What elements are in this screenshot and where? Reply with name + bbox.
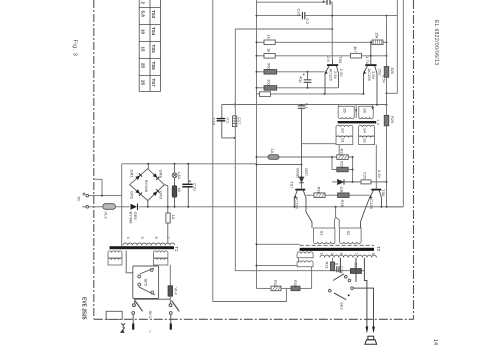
svg-text:0.2: 0.2 [305, 19, 310, 25]
svg-text:C32: C32 [297, 9, 302, 17]
svg-text:0.1: 0.1 [225, 118, 230, 124]
loudspeaker [365, 336, 377, 344]
svg-text:14: 14 [432, 339, 438, 345]
svg-text:GR3: GR3 [159, 191, 164, 200]
wire: T3 secondary left to TS7 base [302, 144, 340, 155]
mains terminal circles on chassis line [132, 312, 172, 315]
output transformer T2 primary winding left [313, 228, 335, 244]
capacitor C16 [217, 105, 235, 138]
transistor TS7 [290, 181, 313, 228]
vertical x=332.2 TS5 collector line [331, 2, 333, 59]
svg-text:C19: C19 [192, 183, 197, 191]
T2 secondary tap numbers [320, 253, 376, 256]
speaker feed wires with arrows [353, 258, 373, 330]
diode GR5 on -rail [129, 204, 139, 225]
wire: y=15.6 rail with C32 [257, 15, 398, 17]
transformer T1 terminal numbers [126, 237, 171, 240]
svg-text:TS7: TS7 [151, 79, 156, 88]
capacitor C31 electrolytic at top [323, 0, 333, 5]
svg-text:0.4V: 0.4V [377, 170, 382, 179]
diode GR7 on TS7 base line [299, 144, 304, 189]
svg-text:TS5: TS5 [338, 56, 343, 64]
T2 bottom small winding pair [297, 252, 313, 288]
table cell texts [141, 2, 157, 88]
battery terminals + 6V [83, 193, 89, 209]
svg-text:R24: R24 [340, 149, 345, 157]
output transformer T2 center tap from rail [334, 207, 339, 228]
resistor R28 [306, 194, 370, 196]
svg-text:TS4: TS4 [151, 27, 156, 36]
resistor R44 4k7 [351, 53, 362, 58]
svg-text:R20: R20 [293, 280, 298, 288]
tap wires with R21 C25 [333, 258, 340, 272]
svg-text:1k: 1k [267, 35, 272, 39]
svg-text:AC128: AC128 [295, 197, 300, 210]
svg-text:40: 40 [177, 188, 182, 193]
svg-text:C16: C16 [212, 118, 217, 126]
resistor R29 on x=386.5 [384, 16, 395, 207]
output transformer T2 core [300, 248, 374, 251]
svg-text:SK1: SK1 [148, 311, 153, 319]
main supply bus x=256.5 [256, 0, 258, 289]
speaker select switch SK2 [329, 258, 357, 300]
resistor R19 [271, 286, 281, 291]
emitter rail y=93.9 with resistor [257, 93, 364, 95]
svg-text:2.3V: 2.3V [339, 69, 344, 78]
svg-text:25: 25 [141, 80, 146, 86]
vertical wire x=235.3 with corners [235, 29, 364, 271]
transistor TS8 [361, 145, 386, 228]
long vertical wire from top at x=213 [213, 0, 287, 302]
transistor TS6 [363, 42, 386, 104]
capacitor C22 [353, 180, 387, 184]
svg-text:R21: R21 [325, 262, 330, 270]
wire: y=265.6 from bus to T2 low winding [257, 265, 297, 267]
transformer T1 primary winding [123, 238, 175, 245]
svg-text:TS6: TS6 [151, 62, 156, 71]
driver transformer T3 primary windings [338, 105, 379, 125]
capacitor C17 box on x=235 line [233, 116, 237, 127]
capacitor C24 electrolytic [304, 72, 312, 88]
svg-text:S6: S6 [363, 108, 368, 114]
svg-text:2.5V: 2.5V [333, 71, 338, 80]
wire: right line x=403.3 [387, 0, 404, 207]
resistor R15 pill [268, 155, 279, 160]
resistor R25 [337, 167, 348, 172]
svg-text:S2: S2 [346, 231, 351, 237]
svg-text:AC128: AC128 [369, 197, 374, 210]
svg-text:1k: 1k [267, 48, 272, 52]
svg-text:S1: S1 [320, 231, 325, 237]
svg-text:BY448: BY448 [144, 180, 149, 193]
svg-text:560: 560 [267, 63, 272, 70]
diode GR2 [153, 173, 160, 180]
resistor row y=55.8 : R32 [257, 55, 387, 57]
transformer T1 secondary winding right pair [154, 251, 168, 265]
svg-text:820: 820 [390, 68, 395, 75]
diode GR6 [338, 179, 353, 184]
svg-text:EVE 2525: EVE 2525 [81, 297, 87, 320]
mains entry terminal box on chassis line [106, 311, 122, 319]
wire rail y=104.7 above driver transformer [222, 104, 387, 106]
svg-text:AC126: AC126 [329, 69, 334, 82]
resistor R24 [337, 155, 348, 160]
svg-text:0.1: 0.1 [305, 103, 310, 109]
junction rail x=352.6 [352, 157, 354, 182]
svg-text:TS7: TS7 [290, 181, 295, 189]
transformer T1 secondary winding left pair [108, 251, 122, 265]
svg-text:S5: S5 [343, 108, 348, 114]
mains switch SK1 [133, 299, 180, 311]
svg-text:GR1: GR1 [130, 170, 135, 179]
driver transformer T3 core [338, 121, 377, 123]
svg-text:6V: 6V [77, 197, 82, 202]
diode GR1 [135, 173, 142, 180]
svg-text:T2: T2 [376, 246, 381, 252]
fuse VL1 [164, 185, 170, 238]
resistor R20 [291, 286, 300, 291]
svg-text:SK2: SK2 [340, 302, 345, 310]
wire: y=244.3 from bus to T2 [257, 243, 300, 245]
voltage selector SK5 box [126, 251, 158, 304]
capacitor C23 [298, 105, 305, 144]
svg-text:5.8: 5.8 [141, 11, 146, 18]
driver transformer T3 secondary windings [336, 125, 375, 144]
wire: resistor R19 R20 row [257, 287, 312, 289]
svg-text:SK5: SK5 [144, 279, 149, 287]
svg-text:C22: C22 [363, 172, 368, 180]
power supply box top wire [122, 164, 257, 246]
wire: right line x=397.3 top [387, 0, 398, 93]
wire: chassis dash-dot bottom border [94, 318, 414, 320]
svg-text:15: 15 [141, 47, 146, 53]
wire: y=29 from corner to x=332 [235, 28, 332, 30]
wire: +6V rail [89, 179, 122, 195]
mains cable earth mark [121, 323, 125, 332]
wire: chassis jog to + rail [94, 179, 102, 195]
svg-text:S4: S4 [363, 128, 368, 134]
svg-text:R28: R28 [317, 187, 322, 195]
bridge rectifier diamond [130, 164, 165, 207]
svg-text:2.6: 2.6 [326, 56, 331, 62]
svg-text:LA1: LA1 [177, 172, 182, 180]
svg-text:1A: 1A [171, 215, 176, 220]
svg-text:OA85: OA85 [296, 168, 301, 179]
resistor R43 [372, 40, 383, 45]
svg-text:3.5V: 3.5V [371, 71, 376, 80]
svg-text:R25: R25 [340, 161, 345, 169]
resistor R22 [350, 269, 361, 274]
svg-text:C25: C25 [339, 266, 344, 274]
output transformer T2 primary winding right [340, 228, 362, 244]
svg-text:R19: R19 [273, 280, 278, 288]
svg-text:TS8: TS8 [381, 189, 386, 197]
voltage table top left [139, 0, 160, 92]
svg-text:1A: 1A [270, 149, 275, 154]
resistor row y=71.8 : R33 [257, 71, 325, 73]
svg-text:15k: 15k [375, 32, 380, 38]
fuse resistor VL4 [168, 265, 179, 304]
diode GR4 [153, 189, 160, 196]
svg-text:GR5: GR5 [133, 212, 138, 221]
svg-text:GR2: GR2 [130, 191, 135, 200]
mains plug pins below chassis [133, 314, 171, 323]
svg-text:TS5: TS5 [151, 45, 156, 54]
resistor row y=87.8 : R34 [257, 87, 339, 89]
svg-text:R26: R26 [340, 200, 345, 208]
svg-text:EL 6822/00/06/13: EL 6822/00/06/13 [433, 20, 439, 65]
supply dropper chain x=332 with resistor R24 R25 GR6 [257, 157, 337, 182]
resistor row y=42.3 : R31 [257, 41, 387, 43]
wire: chassis dash-dot left border [93, 0, 95, 319]
svg-text:4k7: 4k7 [353, 46, 358, 53]
wire: y=164.5 from bus to GR7 line [257, 164, 302, 166]
wire: -6V rail (long ground rail) [89, 206, 404, 208]
svg-text:S1: S1 [341, 138, 346, 144]
resistor R26 [338, 193, 350, 198]
resistor under LA1 [172, 186, 177, 198]
svg-text:TS3: TS3 [151, 10, 156, 19]
wire: chassis dash-dot right border [413, 0, 415, 319]
wire: y=270.7 bottom run to output transformer taps [235, 270, 350, 272]
T2 screen dashed line [300, 244, 374, 246]
svg-text:40μ: 40μ [299, 76, 304, 83]
capacitor C19 [182, 164, 192, 207]
svg-text:100: 100 [267, 79, 272, 86]
svg-text:GR7: GR7 [304, 168, 309, 177]
diode GR3 [135, 189, 142, 196]
svg-text:1.7V: 1.7V [365, 56, 370, 65]
capacitor C32 [302, 12, 304, 19]
svg-text:R29: R29 [390, 116, 395, 124]
transistor TS5 [325, 56, 345, 94]
svg-text:S3: S3 [341, 128, 346, 134]
svg-text:VL3: VL3 [104, 212, 109, 220]
svg-text:Fig. 3: Fig. 3 [72, 40, 78, 57]
svg-text:VL4: VL4 [174, 288, 179, 296]
fuse VL3 [103, 204, 116, 210]
wire: top feed y=2.2 to C31 [257, 1, 326, 3]
svg-text:25: 25 [141, 63, 146, 69]
lamp LA1 chain [172, 164, 177, 207]
transformer T1 core [110, 246, 175, 249]
svg-text:BY448: BY448 [129, 212, 134, 225]
T2 main secondary long winding [320, 255, 376, 257]
wire: PSU left border down to T1 [121, 164, 123, 246]
svg-text:C17: C17 [237, 117, 242, 125]
svg-text:10: 10 [141, 29, 146, 35]
svg-text:T1: T1 [174, 246, 179, 252]
svg-text:S2: S2 [363, 138, 368, 144]
wire: bottom jog of x=213 line to R19 row [213, 289, 287, 302]
svg-text:~: ~ [148, 330, 153, 333]
svg-text:GR4: GR4 [159, 170, 164, 179]
